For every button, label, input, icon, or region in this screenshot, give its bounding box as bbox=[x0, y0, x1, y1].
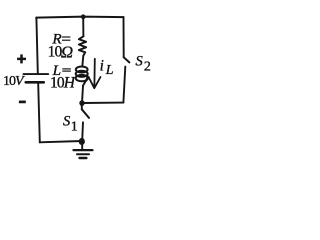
svg-text:10V: 10V bbox=[3, 74, 25, 89]
wire left rail lower bbox=[38, 84, 40, 143]
wire bottom rail bbox=[40, 141, 82, 142]
node junction dot top bbox=[81, 14, 86, 19]
ground bar 3 bbox=[80, 157, 87, 160]
ground stub bbox=[81, 144, 83, 149]
switch S1 blade bbox=[82, 109, 89, 118]
switch S1 lower wire bbox=[81, 122, 84, 138]
wire inductor exit bbox=[83, 76, 88, 86]
wire between R and L bbox=[81, 56, 84, 66]
resistor R1 zigzag bbox=[79, 36, 86, 56]
wire bottom-right horizontal bbox=[84, 102, 123, 104]
node junction dot S1 top bbox=[79, 100, 84, 106]
wire left rail upper bbox=[36, 18, 37, 73]
ground bar 1 bbox=[74, 149, 93, 151]
current arrow iL head bbox=[89, 77, 101, 88]
switch S2 blade bbox=[124, 57, 130, 62]
voltage source V1 battery plates bbox=[24, 73, 49, 75]
svg-text:i: i bbox=[100, 58, 104, 75]
switch S1 stub bbox=[81, 106, 83, 110]
label plus sign bbox=[17, 54, 26, 63]
current arrow iL line bbox=[93, 59, 95, 86]
svg-text:Ω: Ω bbox=[61, 42, 73, 61]
wire right rail upper bbox=[123, 17, 125, 57]
wire middle branch bottom bbox=[82, 86, 83, 103]
svg-text:10H: 10H bbox=[50, 75, 76, 92]
wire top rail bbox=[36, 17, 123, 19]
ground bar 2 bbox=[77, 153, 89, 155]
svg-text:L: L bbox=[105, 63, 114, 78]
svg-text:2: 2 bbox=[144, 60, 151, 75]
node junction dot bottom bbox=[79, 138, 85, 145]
wire right rail lower bbox=[123, 67, 125, 103]
inductor L1 coil loops bbox=[76, 67, 88, 73]
label minus sign bbox=[19, 101, 26, 104]
svg-text:1: 1 bbox=[71, 120, 78, 135]
svg-text:S: S bbox=[63, 114, 71, 130]
svg-text:S: S bbox=[136, 54, 144, 70]
wire middle branch top bbox=[82, 17, 84, 37]
